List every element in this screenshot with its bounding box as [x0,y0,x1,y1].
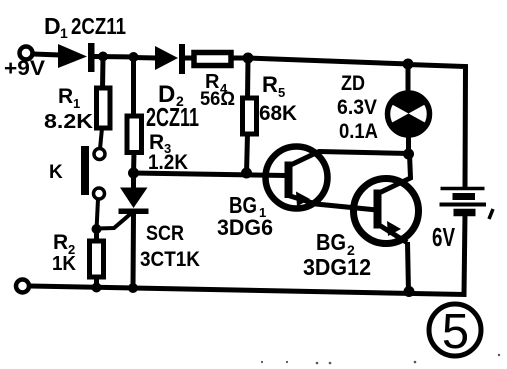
wire node F to BG1 base [134,173,287,176]
node R5-bottom junction [241,168,252,179]
wire lamp top lead from node D [406,64,411,93]
label 6.3V [337,96,377,119]
node D junction (lamp tap) [403,59,414,70]
svg-text:1K: 1K [52,253,77,275]
svg-text:D: D [44,13,61,39]
label +9V [4,57,45,80]
wire top rail: node D to top-right corner [408,65,466,188]
svg-text:R: R [53,231,68,254]
svg-text:K: K [49,162,63,183]
svg-text:6V: 6V [432,222,455,252]
wire top rail: R4 to node C [231,56,250,61]
svg-text:1: 1 [73,96,80,111]
svg-text:R: R [58,85,73,108]
battery 6V [440,189,494,220]
wire R5 top lead from node C [245,58,251,99]
label 6V [432,222,455,252]
svg-text:2CZ11: 2CZ11 [71,13,126,39]
node F junction (SCR anode / base wire) [128,168,139,179]
svg-text:5: 5 [442,305,469,359]
wire right rail: battery minus down to bottom-right corner [30,214,465,295]
svg-text:BG: BG [316,229,346,255]
node A junction (R1 tap) [98,52,108,62]
wire R1 bottom to switch K [100,128,102,149]
label 68K [259,102,297,125]
resistor R3 (vertical box) [127,116,142,153]
label K [49,162,63,183]
svg-text:ZD: ZD [341,72,365,95]
wire SCR anode lead [131,173,136,189]
svg-text:3CT1K: 3CT1K [140,248,200,271]
resistor R4 (horizontal box) [194,53,231,66]
label BG1 [229,192,266,220]
wire top rail: node B to D2 anode [133,55,157,61]
transistor BG2 3DG12 [354,179,419,244]
node SCR-cathode bottom junction [128,283,138,293]
label 1K [52,253,77,275]
node E junction (gate node) [92,224,102,234]
label 56Ω [200,89,235,110]
thyristor SCR 3CT1K [98,188,149,229]
svg-text:1: 1 [60,25,68,41]
resistor R2 (vertical box) [90,241,104,277]
svg-text:6.3V: 6.3V [337,96,377,119]
label R4 [205,71,228,96]
label D1 2CZ11 [44,13,126,41]
label R2 [53,231,75,257]
label 3CT1K [140,248,200,271]
wire SCR cathode to bottom rail [131,213,137,289]
label 3DG6 [217,215,273,240]
node C junction (R5 tap) [243,53,254,64]
wire R2 bottom lead [94,277,99,289]
figure number 5 (circled) [429,304,481,359]
wire BG2 emitter to bottom rail [408,242,409,292]
speck dots (scan artifacts) [261,354,500,365]
wire node E to R2 [94,229,99,242]
lamp ZD 6.3V 0.1A [384,91,433,138]
svg-text:0.1A: 0.1A [339,120,378,143]
node B junction (R3 tap) [129,52,139,62]
wire top rail: node C to node D [248,58,409,64]
node lamp-bottom junction [403,149,414,160]
label 3DG12 [303,254,371,280]
label R1 [58,85,80,111]
wire R3 top lead from node B [131,57,136,117]
label ZD [341,72,365,95]
node R2-bottom junction [92,283,102,293]
transistor BG1 3DG6 [266,147,410,211]
label 0.1A [339,120,378,143]
svg-text:SCR: SCR [146,222,184,245]
node BG2-emitter bottom junction [404,286,415,297]
wire top rail: D2 cathode to R4 [184,56,196,61]
svg-text:68K: 68K [259,102,297,125]
switch K [81,146,105,199]
svg-text:2CZ11: 2CZ11 [146,102,199,132]
svg-text:8.2K: 8.2K [44,111,94,133]
wire R5 bottom lead [247,134,248,174]
diode D1 [58,43,95,72]
svg-text:R: R [262,72,278,97]
svg-text:3DG12: 3DG12 [303,254,371,280]
label D2 [158,81,184,109]
wire top rail: terminal to D1 anode [33,54,60,55]
wire switch K to node E [97,199,99,230]
diode D2 [155,44,185,74]
svg-text:5: 5 [278,85,285,100]
label 2CZ11 (D2) [146,102,199,132]
wire R3 bottom to node F [131,153,137,175]
node ground-side terminal (bottom-left) [16,280,29,293]
resistor R1 (vertical box) [97,88,111,128]
wire BG2 collector lead [380,154,411,193]
svg-text:+9V: +9V [4,57,45,80]
wire R1 top lead [100,57,106,90]
label 8.2K [44,111,94,133]
label BG2 [316,229,355,258]
node +9V input terminal [20,47,33,60]
wire top rail: D1 cathode to node B [94,54,135,60]
label 1.2K [148,151,188,174]
resistor R5 (vertical box) [243,98,257,134]
label SCR [146,222,184,245]
label R5 [262,72,285,100]
svg-text:1.2K: 1.2K [148,151,188,174]
svg-text:3DG6: 3DG6 [217,215,273,240]
label R3 [149,131,171,156]
svg-text:56Ω: 56Ω [200,89,235,110]
wire lamp bottom lead to junction [406,136,411,155]
